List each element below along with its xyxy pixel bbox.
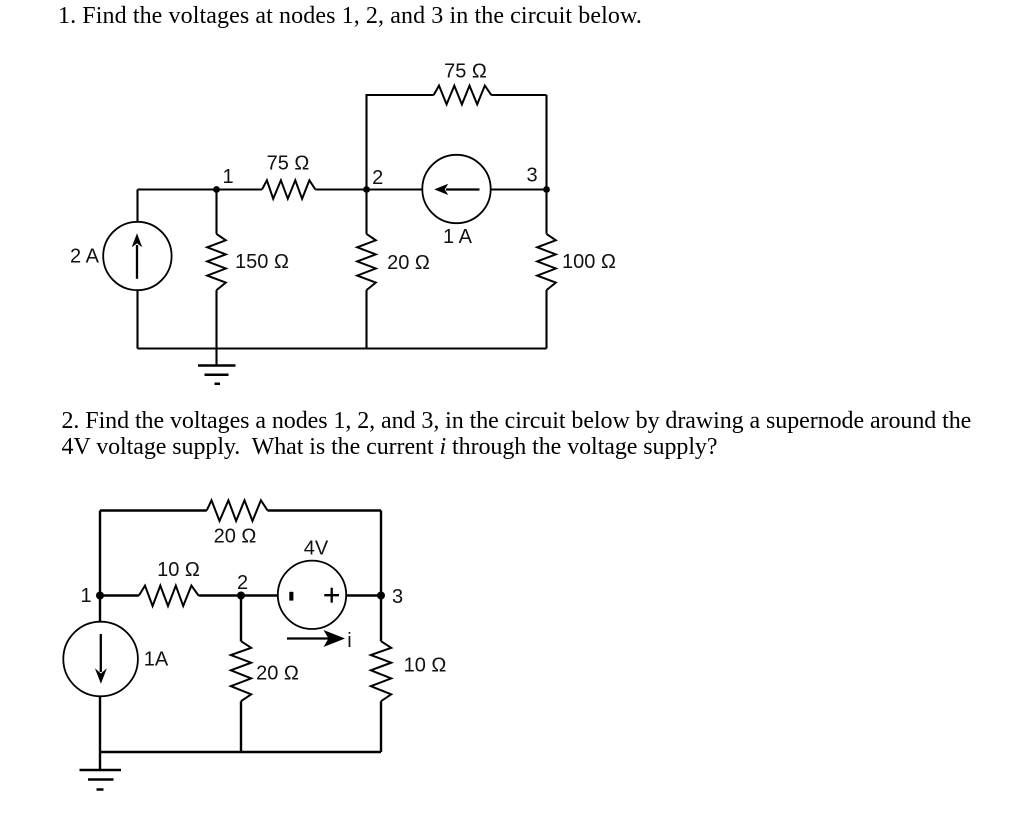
svg-text:75 Ω: 75 Ω [444, 61, 487, 83]
svg-text:3: 3 [392, 586, 403, 608]
svg-text:20 Ω: 20 Ω [256, 663, 299, 685]
svg-text:100 Ω: 100 Ω [562, 251, 616, 273]
svg-text:75 Ω: 75 Ω [267, 153, 310, 175]
svg-text:150 Ω: 150 Ω [235, 251, 289, 273]
svg-text:10 Ω: 10 Ω [404, 655, 447, 677]
svg-text:20 Ω: 20 Ω [387, 252, 430, 274]
svg-text:10 Ω: 10 Ω [157, 559, 200, 581]
svg-text:i: i [347, 630, 351, 652]
svg-text:20 Ω: 20 Ω [214, 526, 257, 548]
svg-text:1 A: 1 A [443, 226, 473, 248]
svg-text:2: 2 [372, 167, 383, 189]
svg-text:1: 1 [222, 166, 233, 188]
svg-text:2: 2 [237, 572, 248, 594]
svg-text:4V: 4V [304, 538, 329, 560]
svg-text:1: 1 [80, 585, 91, 607]
svg-text:1A: 1A [144, 649, 169, 671]
svg-text:2 A: 2 A [70, 246, 100, 268]
svg-text:3: 3 [526, 165, 537, 187]
